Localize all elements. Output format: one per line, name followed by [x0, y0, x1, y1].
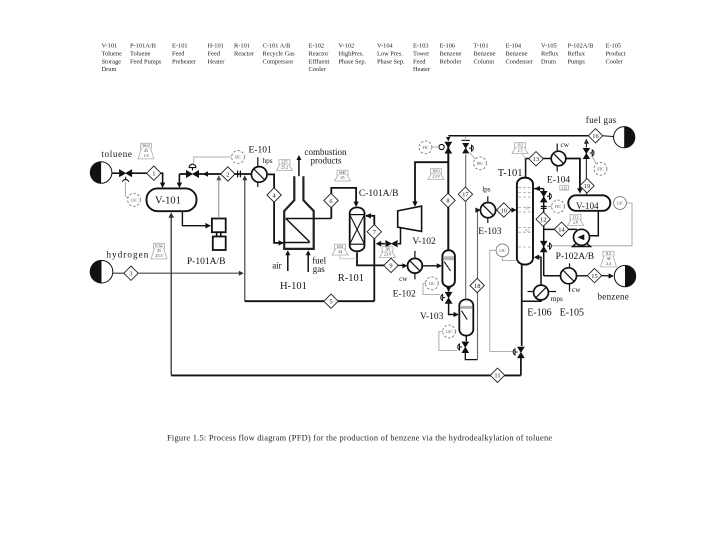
node stream 4 [267, 188, 281, 202]
svg-text:9: 9 [389, 263, 392, 270]
svg-text:Benzene: Benzene [506, 50, 528, 57]
svg-text:benzene: benzene [598, 292, 630, 302]
node stream 16 [588, 129, 602, 143]
product line to E-105 [544, 275, 561, 277]
overhead vapor line [526, 159, 552, 178]
svg-text:H-101: H-101 [208, 43, 224, 50]
wire E-105 to benzene [577, 275, 588, 277]
svg-text:Drum: Drum [102, 66, 117, 73]
stack arrow [298, 158, 300, 176]
node stream 12 [536, 212, 550, 226]
vessel V-104 [568, 195, 610, 211]
reboiler return to column [535, 257, 541, 285]
svg-text:R-101: R-101 [234, 43, 250, 50]
flag stream 9 conditions [332, 244, 348, 255]
svg-text:3: 3 [129, 271, 132, 278]
flag 112 box [560, 185, 569, 190]
valve top bar [462, 139, 470, 141]
svg-text:cw: cw [561, 141, 570, 149]
svg-text:Feed Pumps: Feed Pumps [130, 58, 162, 65]
V-104 liquid to P-102 [589, 211, 598, 236]
controller FIC fuel gas flow [594, 162, 607, 175]
V-102 vapor riser [447, 143, 449, 251]
svg-text:V-102: V-102 [412, 237, 436, 247]
svg-text:Benzene: Benzene [440, 50, 462, 57]
flag stream 8 conditions [428, 169, 444, 180]
svg-text:E-104: E-104 [547, 176, 570, 186]
svg-text:13: 13 [533, 156, 539, 163]
svg-text:14: 14 [558, 227, 565, 234]
svg-text:E-103: E-103 [413, 43, 429, 50]
svg-text:23.9: 23.9 [432, 173, 439, 178]
svg-text:Heater: Heater [413, 66, 431, 73]
actuator of toluene valve [122, 180, 128, 182]
node stream 15 [587, 268, 601, 282]
svg-text:Figure 1.5: Process flow diag: Figure 1.5: Process flow diagram (PFD) f… [167, 434, 552, 443]
heat exchanger E-102 [408, 258, 423, 273]
svg-text:Product: Product [606, 50, 626, 57]
svg-text:Reactor: Reactor [234, 50, 255, 57]
control line to V-103 bottom valve [439, 332, 457, 351]
svg-text:P-102A/B: P-102A/B [556, 252, 595, 262]
toluene recycle bottom line [171, 374, 521, 376]
node stream 7 [367, 225, 381, 239]
V-102 bottom outlet [448, 287, 450, 292]
controller LIC V-103 level [443, 325, 456, 338]
svg-text:V-104: V-104 [377, 43, 394, 50]
furnace coil [284, 242, 310, 244]
svg-text:11: 11 [494, 373, 500, 380]
flag connector [522, 153, 526, 159]
svg-text:V-104: V-104 [576, 201, 599, 211]
wire toluene to valve [112, 172, 119, 174]
svg-text:R-101: R-101 [338, 273, 364, 284]
svg-text:Feed: Feed [413, 58, 426, 65]
E-102 utility stubs [414, 251, 416, 258]
flag pump discharge conditions [568, 215, 584, 226]
svg-text:V-102: V-102 [339, 43, 355, 50]
svg-text:FIC: FIC [555, 204, 562, 209]
T-101 bottoms line [521, 264, 523, 347]
svg-text:LIC: LIC [429, 281, 436, 286]
node stream 3 [124, 266, 138, 280]
flag stream 4 conditions [277, 160, 293, 171]
svg-text:Effluent: Effluent [309, 58, 330, 65]
orifice ticks [541, 205, 547, 207]
stream terminator hydrogen feed [90, 260, 113, 283]
flag stream conditions after E-102 [380, 247, 396, 258]
vessel V-103 [459, 299, 473, 335]
svg-text:6: 6 [329, 198, 332, 205]
svg-text:LIC: LIC [131, 197, 138, 202]
compressor discharge [398, 227, 401, 244]
svg-text:25.2: 25.2 [281, 164, 288, 169]
svg-text:V-101: V-101 [102, 43, 118, 50]
svg-text:16: 16 [592, 133, 598, 140]
E-103 utility stubs [487, 196, 489, 203]
svg-text:19: 19 [584, 183, 590, 190]
hydrogen/recycle junction riser [244, 177, 246, 302]
svg-text:42: 42 [525, 228, 529, 233]
svg-text:Benzene: Benzene [474, 50, 496, 57]
svg-text:LIC: LIC [617, 201, 624, 206]
svg-text:gas: gas [313, 264, 325, 274]
valve recycle gas valve [386, 241, 398, 247]
P-102 discharge [544, 228, 577, 230]
air inlet [287, 253, 289, 272]
svg-text:Reflux: Reflux [568, 50, 586, 57]
svg-text:products: products [311, 156, 342, 166]
svg-text:C-101A/B: C-101A/B [359, 189, 399, 199]
compressor C-101 [398, 206, 422, 231]
svg-text:12: 12 [540, 217, 546, 224]
valve toluene feed valve [119, 170, 131, 177]
svg-text:PIC: PIC [477, 161, 484, 166]
svg-text:15: 15 [591, 273, 597, 280]
svg-text:C-101 A/B: C-101 A/B [263, 43, 291, 50]
actuator of V-103 level valve [458, 344, 460, 350]
controller LIC V-104 level [614, 197, 627, 210]
svg-text:T-101: T-101 [474, 43, 489, 50]
controller LIC V-101 level [128, 193, 141, 206]
actuator dome of FIC valve [192, 168, 194, 171]
valve product valve [540, 241, 547, 252]
svg-text:Recycle Gas: Recycle Gas [263, 50, 296, 57]
svg-text:8: 8 [446, 198, 449, 205]
svg-text:P-102A/B: P-102A/B [568, 43, 594, 50]
svg-text:T-101: T-101 [498, 168, 523, 179]
transfer line H-101 to R-101 [331, 188, 356, 219]
svg-text:E-102: E-102 [309, 43, 325, 50]
wire diamond 16 to terminator [602, 135, 613, 138]
svg-text:Cooler: Cooler [309, 66, 327, 73]
flag stream 1 conditions [138, 143, 154, 159]
flag stream 3 conditions [151, 243, 167, 259]
svg-text:P-101A/B: P-101A/B [187, 257, 226, 267]
control line FIC to valve [194, 157, 232, 164]
svg-text:fuel gas: fuel gas [586, 115, 617, 125]
svg-text:25: 25 [340, 175, 344, 180]
fuel gas inlet [307, 253, 309, 273]
vessel V-102 [442, 250, 455, 287]
stream terminator toluene feed [90, 162, 112, 184]
svg-text:P-101A/B: P-101A/B [130, 43, 156, 50]
flag stream 6 conditions [335, 170, 351, 181]
svg-text:Low Pres.: Low Pres. [377, 50, 403, 57]
svg-text:5: 5 [329, 299, 332, 306]
heat exchanger E-103 [480, 203, 495, 218]
heat exchanger E-106 [534, 285, 549, 300]
control line FIC to orifice [548, 206, 552, 208]
svg-text:Feed: Feed [208, 50, 221, 57]
node stream 6 [324, 193, 338, 207]
heat exchanger E-105 [561, 268, 577, 284]
condensate line to V-104 [566, 159, 580, 192]
control line LIC to toluene valve [125, 182, 127, 196]
svg-text:LIC: LIC [446, 329, 453, 334]
svg-text:2.5: 2.5 [517, 147, 522, 152]
svg-text:Pumps: Pumps [568, 58, 586, 65]
node stream 10 [497, 203, 511, 217]
valve toluene recycle valve [186, 171, 198, 178]
controller LIC V-102 level [426, 277, 439, 290]
tower feed riser through diamond 18 [477, 210, 479, 360]
node stream 8 [441, 193, 455, 207]
svg-text:Feed: Feed [172, 50, 185, 57]
fuel gas header [448, 135, 589, 137]
svg-text:24: 24 [338, 249, 342, 254]
svg-text:HighPres.: HighPres. [339, 50, 365, 57]
P-101 discharge riser [218, 177, 220, 219]
heat exchanger E-101 [251, 167, 267, 183]
wire diamond 1 to V-101 [161, 173, 163, 185]
svg-text:H-101: H-101 [280, 281, 307, 292]
wire valve to diamond 1 [132, 172, 147, 174]
svg-text:2: 2 [226, 171, 229, 178]
svg-text:V-103: V-103 [420, 312, 444, 322]
svg-text:Preheater: Preheater [172, 58, 197, 65]
controller FIC reflux flow [552, 200, 565, 213]
svg-text:Storage: Storage [102, 58, 122, 65]
svg-text:cw: cw [399, 275, 408, 283]
valve bottoms valve [518, 347, 525, 358]
E-106 utility stubs [528, 291, 534, 293]
actuator of V-103 vapor valve [472, 145, 474, 151]
reflux riser with valves [543, 189, 545, 276]
node stream 17 [458, 187, 472, 201]
svg-text:25.5: 25.5 [155, 253, 162, 258]
valve vent valve [583, 148, 589, 158]
line 5: junction to quench riser [245, 300, 374, 302]
svg-text:E-102: E-102 [393, 290, 416, 300]
controller LIC T-101 level [496, 244, 509, 257]
control line T-101 LIC to bottoms valve [490, 250, 514, 351]
svg-text:toluene: toluene [102, 149, 133, 159]
compressor suction from recycle tee [415, 162, 448, 204]
vessel V-101 [147, 188, 197, 211]
E-101 utility stubs [257, 157, 259, 167]
control valve on recycle to V-101 (FIC) [199, 173, 221, 175]
svg-text:Condenser: Condenser [506, 58, 534, 65]
valve V-103 level valve [462, 342, 469, 353]
svg-text:LIC: LIC [499, 248, 506, 253]
actuator of product valve [550, 243, 552, 249]
svg-text:lps: lps [482, 186, 491, 194]
node stream 5 [324, 294, 338, 308]
svg-text:Phase Sep.: Phase Sep. [339, 58, 367, 65]
svg-text:Column: Column [474, 58, 495, 65]
svg-text:E-106: E-106 [440, 43, 456, 50]
control line PIC to valve [470, 153, 476, 160]
svg-text:Toluene: Toluene [130, 50, 151, 57]
wire E-103 to T-101 [496, 209, 498, 211]
valve reflux valve [540, 191, 547, 202]
svg-text:112: 112 [561, 185, 567, 190]
pumps P-101A/B [212, 219, 226, 251]
svg-text:cw: cw [572, 286, 581, 294]
stream terminator benzene out [614, 265, 635, 286]
actuator of vent valve [592, 150, 594, 156]
svg-text:E-104: E-104 [506, 43, 522, 50]
node stream 14 [554, 222, 568, 236]
svg-text:23.9: 23.9 [384, 251, 391, 256]
node stream 19 [580, 179, 594, 193]
control line to V-102 bottom valve [423, 283, 440, 294]
equipment summary header [102, 43, 626, 74]
controller FIC toluene flow [232, 151, 245, 164]
svg-text:Tower: Tower [413, 50, 430, 57]
hydrogen feed line [138, 272, 241, 274]
svg-text:1: 1 [152, 171, 155, 178]
svg-text:Drum: Drum [541, 58, 556, 65]
flag stream 13 conditions [512, 143, 528, 154]
control line FIC to vent valve [593, 157, 597, 164]
reboiler feed from bottoms [522, 300, 541, 302]
mixing ticks [237, 171, 239, 178]
flag connector [340, 256, 357, 259]
controller FIC purge flow [419, 141, 432, 154]
actuator of bottoms valve [513, 349, 515, 355]
stream terminator fuel gas out [614, 127, 635, 148]
node stream 18 [470, 278, 484, 292]
control line FIC to purge valve [432, 146, 439, 148]
svg-text:V-101: V-101 [155, 196, 181, 207]
svg-text:hps: hps [263, 157, 273, 165]
svg-text:E-101: E-101 [172, 43, 188, 50]
furnace H-101 [284, 176, 314, 249]
svg-text:E-103: E-103 [478, 227, 501, 237]
E-101 outlet to H-101 [267, 174, 283, 243]
svg-text:E-105: E-105 [606, 43, 622, 50]
svg-text:E-106: E-106 [527, 308, 551, 319]
node stream 1 [147, 166, 161, 180]
R-101 outlet [357, 253, 384, 266]
svg-text:2.8: 2.8 [573, 219, 578, 224]
svg-text:18: 18 [474, 283, 480, 290]
reactor R-101 [350, 207, 365, 251]
wire E-102 to V-102 [422, 265, 439, 267]
svg-text:mps: mps [551, 295, 563, 303]
svg-text:FIC: FIC [235, 155, 242, 160]
pump P-102 [573, 229, 591, 246]
svg-text:Reflux: Reflux [541, 50, 559, 57]
wire hydrogen to diamond 3 [113, 272, 124, 274]
svg-text:Compressor: Compressor [263, 58, 295, 65]
controller PIC column pressure [474, 157, 487, 170]
svg-text:20: 20 [525, 206, 529, 211]
wire to V-103 [449, 303, 457, 314]
V-103 bottoms [465, 335, 467, 341]
svg-text:E-105: E-105 [560, 308, 584, 319]
node stream 2 [221, 167, 235, 181]
valve V-102 level valve [445, 292, 452, 303]
quench riser into R-101 [366, 216, 374, 301]
actuator of reflux valve [550, 193, 552, 199]
heat exchanger E-104 [551, 151, 566, 166]
control line V-104 LIC to product valve [551, 203, 632, 246]
V-103 vapor line through diamond 17 [465, 155, 467, 300]
svg-text:Cooler: Cooler [606, 58, 624, 65]
column T-101 [517, 178, 533, 265]
svg-text:1.9: 1.9 [143, 153, 148, 158]
svg-text:Toluene: Toluene [102, 50, 123, 57]
E-104 utility stubs [556, 144, 558, 152]
svg-text:17: 17 [462, 192, 469, 199]
V-101 outlet to P-101 [182, 211, 205, 226]
svg-text:Heater: Heater [208, 58, 226, 65]
svg-text:Phase Sep.: Phase Sep. [377, 58, 405, 65]
flag stream 15 conditions [601, 251, 617, 267]
node stream 13 [529, 152, 543, 166]
actuator of V-102 level valve [441, 295, 443, 301]
svg-text:FIC: FIC [422, 145, 429, 150]
node stream 11 [490, 368, 504, 382]
valve V-103 vapor valve [463, 143, 469, 153]
svg-text:Reactor: Reactor [309, 50, 330, 57]
svg-text:E-101: E-101 [249, 146, 272, 156]
svg-text:hydrogen: hydrogen [107, 250, 150, 260]
svg-text:10: 10 [501, 207, 507, 214]
E-105 utility stubs [569, 263, 571, 267]
svg-text:2.4: 2.4 [606, 261, 611, 266]
recycle return into V-101 bottom [170, 214, 172, 375]
svg-text:V-105: V-105 [541, 43, 557, 50]
svg-text:Reboiler: Reboiler [440, 58, 463, 65]
node stream 9 [384, 258, 398, 272]
V-104 vent to fuel gas [585, 152, 587, 195]
wire diamond 9 to E-102 [398, 264, 405, 266]
svg-text:FIC: FIC [597, 166, 604, 171]
valve purge valve [445, 142, 452, 153]
svg-text:air: air [272, 260, 282, 270]
wire diamond 2 to E-101 [235, 173, 252, 175]
